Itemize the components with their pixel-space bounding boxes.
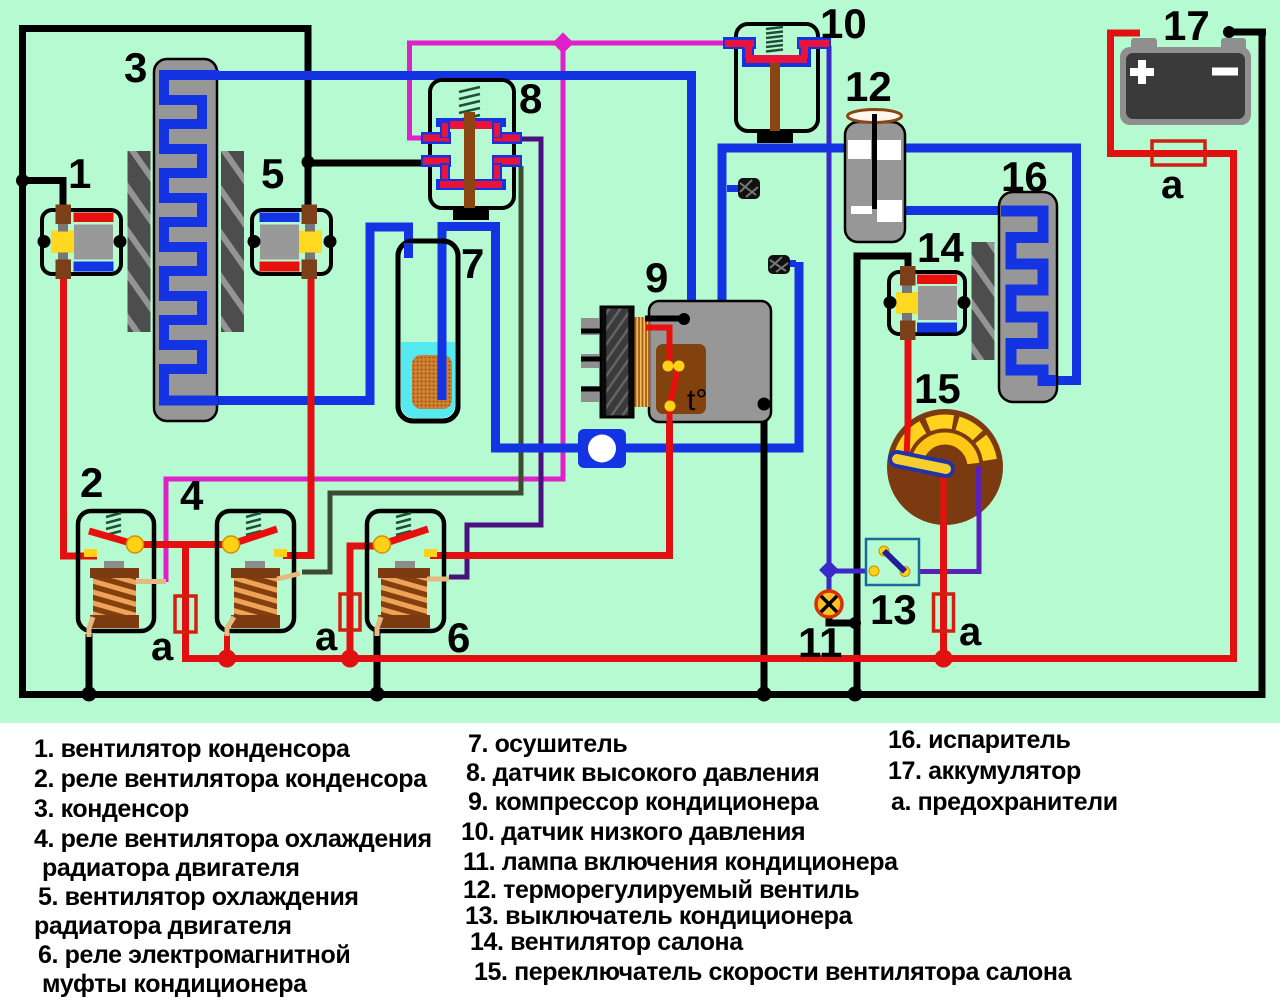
wire: red bus +12V bottom — [64, 33, 1234, 659]
relay 2 (condenser fan relay) — [78, 511, 166, 637]
wire: magenta drop to relay2 coil — [166, 43, 563, 582]
blower fan 15 — [887, 409, 1003, 527]
svg-text:7. осушитель: 7. осушитель — [468, 730, 627, 758]
svg-text:8: 8 — [519, 75, 542, 122]
svg-text:13. выключатель кондиционера: 13. выключатель кондиционера — [465, 902, 854, 930]
fan 15 outer speed arc segments — [902, 427, 923, 454]
compressor thermal box — [656, 344, 706, 414]
fan 15 red feed from motor14 — [907, 420, 909, 459]
pipe: suction line node to low service port riser — [600, 262, 799, 448]
svg-text:14. вентилятор салона: 14. вентилятор салона — [470, 928, 744, 956]
svg-text:радиатора двигателя: радиатора двигателя — [42, 854, 300, 882]
svg-text:16: 16 — [1001, 153, 1048, 200]
wire: compressor body to ground — [761, 404, 768, 694]
svg-text:10. датчик низкого давления: 10. датчик низкого давления — [461, 818, 805, 846]
svg-text:3. конденсор: 3. конденсор — [34, 795, 189, 823]
wire: red motor1 to relay2 — [64, 277, 98, 556]
pressure sensor 10 (low) — [723, 24, 831, 143]
svg-text:a: a — [959, 610, 982, 654]
service port low side (on suction riser) — [768, 255, 796, 274]
sensor 8 left lower arm — [421, 155, 451, 167]
node: battery minus dot — [1223, 26, 1235, 38]
node: ground dot compressor — [757, 687, 772, 702]
sensor 8 right lower arm — [492, 155, 522, 167]
wire: magenta sensor8 left arm drop — [166, 43, 727, 582]
node: lamp gnd link dot — [849, 617, 861, 629]
svg-text:a: a — [315, 615, 338, 659]
fuse a3 (fan fuse) — [934, 594, 954, 631]
condenser 3 body — [154, 59, 219, 421]
relay 2 moving arm — [89, 531, 134, 544]
sensor 8 base — [453, 208, 489, 220]
compressor clutch feed black stub — [645, 316, 682, 322]
pipe: compressor to TXV12 left line — [722, 148, 845, 300]
fuse a1 (relay rail fuse) — [175, 596, 196, 632]
wire: magenta top run sensor8 to sensor10 — [407, 41, 727, 46]
node: violet junction diamond — [819, 560, 839, 580]
wire: violet lamp feed — [827, 570, 832, 596]
compressor pulley — [601, 307, 633, 417]
svg-text:17. аккумулятор: 17. аккумулятор — [888, 757, 1081, 785]
wire: black supply loop (battery minus frame) top-left — [19, 25, 1266, 695]
node: suction line fitting with white circle — [578, 429, 626, 468]
compressor ground dot — [758, 398, 771, 411]
radiator bar left of evaporator — [972, 242, 995, 360]
relay 2 pivot contact dot — [127, 536, 144, 553]
wire: violet junction to switch13 left contact — [829, 569, 872, 574]
sensor 8 cup verticals — [440, 121, 450, 138]
compressor internal red wiring — [646, 328, 670, 364]
svg-text:16. испаритель: 16. испаритель — [888, 726, 1070, 754]
sensor 8 bottom contact bar — [436, 179, 506, 190]
relay 4 output pad — [274, 549, 287, 557]
evaporator 16 coil zigzag — [1001, 211, 1056, 381]
wire: left vertical black from top wire to ground bus — [19, 25, 26, 694]
fan 15 inner arc — [917, 439, 974, 464]
svg-text:1: 1 — [68, 150, 91, 197]
TXV valve 12 — [845, 110, 905, 243]
relay 4 coil pigtail right to olive — [277, 574, 300, 580]
wire: motor5 junction to sensor8 low contact — [308, 160, 424, 167]
svg-text:4: 4 — [180, 472, 204, 519]
compressor mount tabs — [581, 318, 599, 335]
svg-text:4. реле вентилятора охлаждения: 4. реле вентилятора охлаждения — [34, 825, 432, 853]
relay 4 moving arm — [232, 529, 277, 544]
wire: red relay6 input from bus fuse — [350, 546, 382, 659]
sensor 8 spring — [459, 87, 480, 120]
node: red bus dot relay4 coil — [218, 650, 236, 668]
wire: red motor5 to relay4 output — [283, 277, 311, 556]
wire: red fan15 to bus fuse — [940, 522, 947, 659]
svg-text:12. терморегулируемый вентиль: 12. терморегулируемый вентиль — [463, 876, 859, 904]
sensor 10 base — [757, 131, 793, 143]
wire: red relay4 coil feed — [224, 634, 230, 659]
fuse a4 (battery main fuse) — [1152, 141, 1205, 165]
svg-text:15. переключатель скорости вен: 15. переключатель скорости вентилятора с… — [474, 958, 1073, 986]
wire: dark purple sensor8 upper contact to relay6 coil — [449, 139, 541, 577]
pipe: drier inlet stub — [404, 243, 413, 258]
switch 13 (AC switch) — [866, 539, 919, 585]
svg-text:а. предохранители: а. предохранители — [891, 788, 1118, 816]
svg-text:радиатора двигателя: радиатора двигателя — [34, 912, 292, 940]
svg-text:a: a — [1161, 163, 1184, 207]
wire: ground bus bottom — [23, 32, 1263, 695]
relay 4 pivot contact dot — [223, 536, 240, 553]
svg-text:муфты кондиционера: муфты кондиционера — [42, 970, 308, 998]
relay 4 coil pigtail left — [227, 617, 234, 636]
sensor 8 right upper arm — [492, 132, 522, 144]
sensor 8 left upper arm — [421, 132, 451, 144]
wire: red relay6 output to compressor clutch — [430, 412, 670, 556]
fan 15 purple tap down — [976, 466, 981, 516]
wire: relay6 coil to ground — [374, 631, 381, 694]
sensor 8 top contact bar — [436, 118, 506, 127]
wire: violet sensor10 to switch13 — [827, 46, 832, 570]
pipe: TXV12 upper right to evaporator bottom — [905, 148, 1077, 381]
svg-text:t°: t° — [687, 384, 707, 417]
drier 7 shell border redraw — [398, 241, 458, 421]
wire: top horizontal black to motor 5 — [19, 25, 312, 32]
svg-text:7: 7 — [461, 240, 484, 287]
svg-text:2. реле вентилятора конденсора: 2. реле вентилятора конденсора — [34, 765, 428, 793]
motor 5 (engine radiator fan) — [248, 205, 337, 280]
relay 6 pivot contact dot — [374, 536, 391, 553]
sensor 10 spring — [766, 27, 783, 52]
relay 6 (compressor clutch relay) — [367, 511, 449, 636]
drier 7 body — [398, 241, 458, 421]
compressor 9 body — [581, 301, 771, 460]
node: ground dot relay2 — [82, 687, 97, 702]
node: junction dot motor5 branch — [302, 156, 315, 169]
wire: motor14 ground run — [857, 256, 908, 694]
condenser 3 coil zigzag — [164, 75, 219, 401]
node: ground dot motor14 — [848, 687, 863, 702]
svg-text:5. вентилятор охлаждения: 5. вентилятор охлаждения — [38, 883, 359, 911]
fan 15 selector lever — [897, 459, 946, 469]
node: red bus dot fan fuse — [935, 650, 953, 668]
service port high side (on TXV line) — [727, 178, 760, 199]
svg-text:9. компрессор кондиционера: 9. компрессор кондиционера — [468, 788, 820, 816]
relay 6 moving arm — [383, 529, 428, 544]
compressor contact dots — [663, 361, 674, 372]
wire: branch to motor 1 — [23, 181, 64, 208]
wire: motor5 drop black — [305, 29, 312, 207]
wire: olive sensor8 lower contact to relay4 coil — [302, 166, 521, 572]
svg-text:9: 9 — [645, 254, 668, 301]
battery 17 — [1120, 38, 1251, 125]
svg-text:5: 5 — [261, 150, 284, 197]
wire: battery minus top — [1229, 29, 1266, 36]
fuse a2 (relay6 fuse) — [340, 594, 360, 630]
sensor 10 left arm — [723, 37, 756, 49]
relay 6 coil pigtail left — [377, 617, 381, 636]
sensor 8 stem — [464, 112, 475, 208]
svg-text:17: 17 — [1163, 2, 1210, 49]
svg-text:11. лампа включения кондиционе: 11. лампа включения кондиционера — [463, 848, 899, 876]
relay 2 coil pigtail right to magenta — [136, 579, 166, 584]
svg-text:14: 14 — [917, 224, 964, 271]
motor 14 (cabin fan) — [884, 266, 971, 340]
wire: purple switch13 to fan15 — [907, 470, 979, 572]
svg-text:15: 15 — [914, 365, 961, 412]
evaporator 16 body — [999, 192, 1057, 402]
relay 2 input pad — [84, 549, 97, 557]
svg-text:1. вентилятор конденсора: 1. вентилятор конденсора — [34, 735, 351, 763]
pipe: TXV12 lower right to evaporator top — [905, 206, 1000, 215]
fan 15 red output down — [941, 464, 947, 527]
pipe: drier pickup tube inside — [438, 244, 447, 400]
wire: red battery plus lead — [1111, 33, 1141, 157]
svg-text:8. датчик высокого давления: 8. датчик высокого давления — [466, 759, 819, 787]
svg-text:6. реле электромагнитной: 6. реле электромагнитной — [38, 941, 350, 969]
sensor 10 cup — [742, 47, 754, 64]
wire: black over pipe segment — [761, 438, 768, 460]
pipe: condenser top line to compressor — [215, 76, 692, 301]
relay 2 coil pigtail left — [89, 617, 93, 637]
sensor 10 right arm — [797, 37, 831, 49]
compressor clutch coil band — [633, 317, 650, 407]
svg-text:6: 6 — [447, 614, 470, 661]
wire: lamp11 to ground link — [829, 614, 855, 623]
wire: red relay rail relay2-relay4 — [135, 541, 231, 548]
node: magenta junction diamond — [552, 32, 573, 53]
node: red bus dot relay6 fuse — [341, 650, 359, 668]
svg-text:11: 11 — [798, 619, 842, 666]
sensor 8 lower cup verticals — [440, 163, 450, 183]
radiator bar left of condenser — [128, 151, 151, 332]
node: ground dot relay6 — [370, 687, 385, 702]
wire: relay2 coil to ground — [86, 634, 93, 694]
drier 7 liquid — [401, 342, 455, 418]
pressure sensor 8 (high) — [421, 80, 522, 220]
lamp 11 (AC indicator) — [816, 591, 842, 617]
node: junction dot left black — [16, 174, 29, 187]
relay 6 coil pigtail right to purple — [427, 577, 449, 582]
svg-text:a: a — [151, 625, 174, 669]
relay 4 (engine fan relay) — [217, 511, 300, 636]
pipe: condenser outlet loop to drier 7 — [215, 76, 1077, 449]
pipe: drier pickup to sensor8 tap line — [442, 227, 600, 449]
radiator bar right of condenser — [221, 151, 244, 332]
wire: red relay2 output — [135, 541, 186, 548]
motor 1 (condenser fan) — [38, 205, 127, 280]
svg-text:12: 12 — [845, 63, 892, 110]
svg-text:2: 2 — [80, 459, 103, 506]
drier 7 desiccant bag — [412, 355, 452, 409]
relay 6 output pad — [424, 549, 437, 557]
svg-text:3: 3 — [124, 44, 147, 91]
svg-text:13: 13 — [870, 586, 917, 633]
svg-text:10: 10 — [820, 0, 867, 47]
wire: red motor14 to fan15 — [905, 338, 912, 459]
sensor 10 stem — [770, 63, 780, 131]
